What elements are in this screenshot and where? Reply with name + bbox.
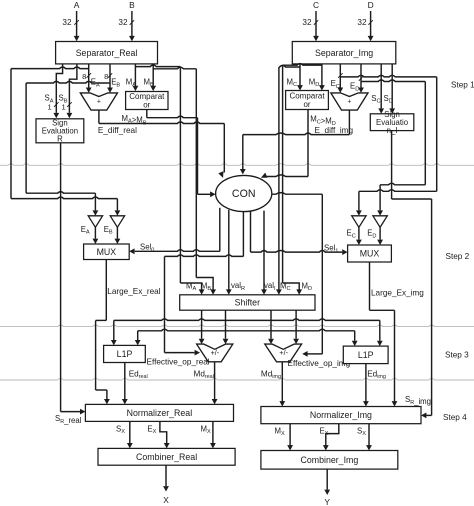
output Y wire [324,469,330,506]
exponent subtractor (img) with + [331,93,368,110]
bus width label 32 (D) [357,18,367,27]
svg-text:Separator_Real: Separator_Real [76,48,138,58]
label Large_Ex_img [371,288,424,297]
effective-op adder +/- (img) [265,344,302,362]
wire E_C from separator into exponent adder (img) [337,64,343,93]
multiplexer MUX (img) [348,245,392,262]
latch triangle E_C (img) [352,216,366,228]
latch triangle E_A (real) [88,216,102,228]
label M_C (step2) [280,281,291,292]
label M_A (step1) [126,77,137,88]
input B wire with 32-bit tick [129,0,135,41]
wire right rail to E_D latch triangle [377,183,425,216]
effective-op adder +/- (real) [197,344,233,362]
label val_R [231,281,245,292]
svg-text:or: or [303,100,310,109]
sign evaluation unit (img) [370,110,414,135]
svg-text:Y: Y [324,497,330,506]
step divider 3 (between Step 3 and Step 4) [0,378,474,380]
svg-text:Large_Ex_img: Large_Ex_img [371,288,424,297]
control unit CON (ellipse) [216,175,272,211]
wire E_X (real, jog) [160,421,170,448]
wire shifter to effective-op adder (real) operand 1 [199,310,205,344]
svg-text:Large_Ex_real: Large_Ex_real [107,287,160,296]
svg-text:Shifter: Shifter [235,298,260,308]
svg-text:+/-: +/- [211,348,220,357]
label E_diff_real [98,126,137,135]
wire M_D copy to mid rail (img) [283,64,322,283]
label S_A [45,94,54,105]
label M_X (real) [201,424,212,435]
label Step 3 [445,351,469,360]
wire S_A (jog from separator to Sign Evaluation) [53,64,62,118]
input A wire with 32-bit tick [74,0,80,41]
label M_C>M_D [310,115,336,128]
combiner Combiner_Img [261,451,398,470]
wire shifter to effective-op adder (img) operand 2 [293,310,299,344]
wire Large_Ex_real from MUX to Normalizer (jogs around L1P) [96,260,110,405]
svg-text:1: 1 [62,102,66,111]
comparator (real) Comparat-or [126,92,168,110]
wire M_A copy to mid rail [135,65,180,283]
svg-text:Step 1: Step 1 [451,80,474,89]
label S_C [371,94,380,105]
input C wire with 32-bit tick [313,0,319,41]
label Large_Ex_real [107,287,160,296]
wire E_X (img, jog) [323,424,339,451]
wire effective-op select from CON to +/- adder (real) [165,211,244,355]
wire E_A from separator into exponent adder [86,64,92,93]
label Md_img [261,369,281,380]
wire M_X (real) [210,421,216,448]
svg-text:Combiner_Real: Combiner_Real [136,452,197,462]
operand bus 2 to L1P units [135,329,358,346]
wire E_D copy to right rail [361,80,425,185]
label Step 1 [451,80,474,89]
wire Sel1 from CON to MUX (img) [251,211,348,255]
operand bus 1 to L1P units [111,319,383,346]
label M_D (step2) [302,281,313,292]
label E_D (step2) [367,229,376,240]
wire S_X (real) [127,421,133,448]
wire S_C into sign evaluation (img) [378,64,384,114]
wire M_A into comparator [133,64,139,91]
svg-text:Step 4: Step 4 [443,413,467,422]
wire Md_real from adder to Normalizer [212,362,218,405]
wire Ed_real from L1P to Normalizer [122,363,128,405]
wire S_X (img) [366,424,372,451]
exponent subtractor (real) with + [80,93,117,110]
normalizer Normalizer_Img [261,407,421,424]
svg-text:+: + [347,99,351,106]
wire E_C copy to right rail [340,75,436,191]
svg-text:8: 8 [82,72,86,81]
wire M_B rail jog into shifter [196,278,216,295]
label E_X (img) [320,426,329,437]
leading-one predictor L1P (real) [104,345,146,362]
barrel shifter [180,295,315,310]
separator Separator_Img [292,42,396,64]
wire shifter to effective-op adder (img) operand 1 [268,310,274,344]
label E_B (step1) [111,78,120,89]
wire M_B into comparator [150,64,156,91]
wire M_C copy to mid rail (img) [279,65,300,290]
label M_A>M_B [122,114,147,127]
wire E_diff_real bus from subtractor to CON top-left [99,110,224,178]
label Ed_real [129,369,148,380]
wire E_A triangle to MUX [93,227,99,244]
label 8 (E_A width) [82,72,86,81]
svg-text:Effective_op_img: Effective_op_img [288,359,351,368]
svg-text:Normalizer_Real: Normalizer_Real [127,408,193,418]
label E_diff_img [315,126,354,135]
svg-text:+/-: +/- [279,348,288,357]
wire Large_Ex_img from MUX to Normalizer (jog right) [370,262,398,407]
wire left rail to E_B latch triangle [11,197,120,216]
wire E_C triangle to MUX (img) [356,227,362,245]
wire left rail to E_A latch triangle [26,192,98,216]
svg-text:Step 3: Step 3 [445,351,469,360]
label 8 (E_B width) [104,72,108,81]
leading-one predictor L1P (img) [343,346,388,364]
label S_B [59,94,68,105]
label Sel_1 [324,244,338,255]
svg-text:R: R [57,135,63,144]
label Step 4 [443,413,467,422]
wire E_D triangle to MUX (img) [377,227,383,245]
wire M_A>M_B from comparator to CON left [147,110,216,198]
wire S_D into sign evaluation (img) [389,64,395,114]
label S_D [384,94,393,105]
wire val_R from CON to shifter [226,210,232,295]
svg-text:1: 1 [48,102,52,111]
svg-text:Step 2: Step 2 [446,252,470,261]
normalizer Normalizer_Real [85,404,233,421]
wire M_D rail jog into shifter [283,283,303,295]
label E_D (step1) [350,82,359,93]
svg-text:L1P: L1P [117,349,133,359]
svg-text:B: B [129,0,135,10]
svg-text:32: 32 [118,18,128,27]
separator Separator_Real [56,42,158,64]
svg-text:Effective_op_real: Effective_op_real [147,357,210,366]
combiner Combiner_Real [98,448,235,465]
svg-text:MUX: MUX [360,249,380,259]
svg-text:D: D [368,0,374,10]
svg-text:8: 8 [104,72,108,81]
latch triangle E_B (real) [110,216,124,228]
wire M_A rail jog into shifter [180,283,204,295]
svg-text:Combiner_Img: Combiner_Img [301,455,359,465]
svg-text:X: X [163,495,169,505]
svg-text:32: 32 [62,18,72,27]
label Md_real [194,369,214,380]
label Effective_op_img [288,359,351,368]
label E_A (step1) [91,78,100,89]
label Effective_op_real [147,357,210,366]
svg-text:A: A [74,0,80,10]
wire M_D into comparator (img) [319,64,325,91]
label M_B (step1) [144,77,155,88]
wire E_D from separator into exponent adder (img) [358,64,364,93]
wire M_C into comparator (img) [297,64,303,91]
wire E_B from separator into exponent adder [107,64,113,93]
wire E_A copy to left rail [11,67,89,199]
wire shifter to effective-op adder (real) operand 2 [223,310,229,344]
wire val_I from CON to shifter [261,211,267,295]
svg-text:Normalizer_Img: Normalizer_Img [310,410,372,420]
svg-text:E_diff_real: E_diff_real [98,126,137,135]
label M_D (step1) [309,77,320,88]
label Sel_0 [140,243,154,254]
svg-text:or: or [143,101,150,110]
wire Ed_img from L1P to Normalizer (img) [363,364,369,407]
wire S_B (jog from separator to Sign Evaluation) [67,64,77,118]
label S_X (real) [116,424,125,435]
step divider 2 (between Step 2 and Step 3) [0,325,474,327]
bus width label 32 (C) [302,18,312,27]
label E_B (step2) [104,225,113,236]
label M_C (step1) [287,77,298,88]
wire right rail to E_C latch triangle [356,190,437,216]
svg-text:CON: CON [232,188,256,200]
label E_A (step2) [81,225,90,236]
step divider 1 (between Step 1 and Step 2) [0,164,474,166]
label M_B (step2) [201,281,212,292]
input D wire with 32-bit tick [368,0,374,41]
label M_X (img) [275,426,286,437]
comparator (img) Comparat-or [286,91,329,110]
label val_I [264,281,276,292]
sign evaluation unit (real) [36,119,84,144]
wire M_B copy to mid rail [153,67,196,277]
latch triangle E_D (img) [373,216,387,228]
svg-text:Separator_Img: Separator_Img [315,48,373,58]
multiplexer MUX (real) [84,244,130,260]
wire E_diff_img bus from subtractor (img) to CON top [240,111,350,175]
label S_R_real [55,414,82,425]
wire M_X (img) [287,424,293,451]
label E_C (step1) [331,79,340,90]
wire M_C>M_D from comparator (img) to CON top-right [261,110,308,178]
label E_X (real) [147,424,156,435]
label 1 (S_B width) [62,102,66,111]
label 1 (S_A width) [48,102,52,111]
svg-text:E_diff_img: E_diff_img [315,126,354,135]
label Ed_img [367,369,386,380]
bus width label 32 (A) [62,18,72,27]
svg-text:32: 32 [357,18,367,27]
wire M_C rail into shifter [276,289,282,294]
wire E_B triangle to MUX [115,227,121,244]
label E_C (step2) [347,229,356,240]
wire E_B copy to left rail [26,81,110,193]
label Step 2 [446,252,470,261]
wire S_R_real from sign evaluation to Normalizer [61,143,86,415]
wire Sel0 from CON to MUX (real) [129,208,220,254]
wire S_R_img from sign evaluation to Normalizer (img) [392,131,432,419]
svg-text:MUX: MUX [97,247,117,257]
svg-text:C: C [313,0,319,10]
label M_A (step2) [186,281,197,292]
label S_R_img [405,395,431,406]
bus width label 32 (B) [118,18,128,27]
label S_X (img) [357,426,366,437]
output X wire [163,465,169,505]
svg-text:+: + [97,99,101,106]
svg-text:32: 32 [302,18,312,27]
wire Md_img from adder to Normalizer (img) [279,362,285,407]
svg-text:L1P: L1P [358,350,374,360]
wire CON right connection / effective-op select rail (img) [272,193,323,357]
